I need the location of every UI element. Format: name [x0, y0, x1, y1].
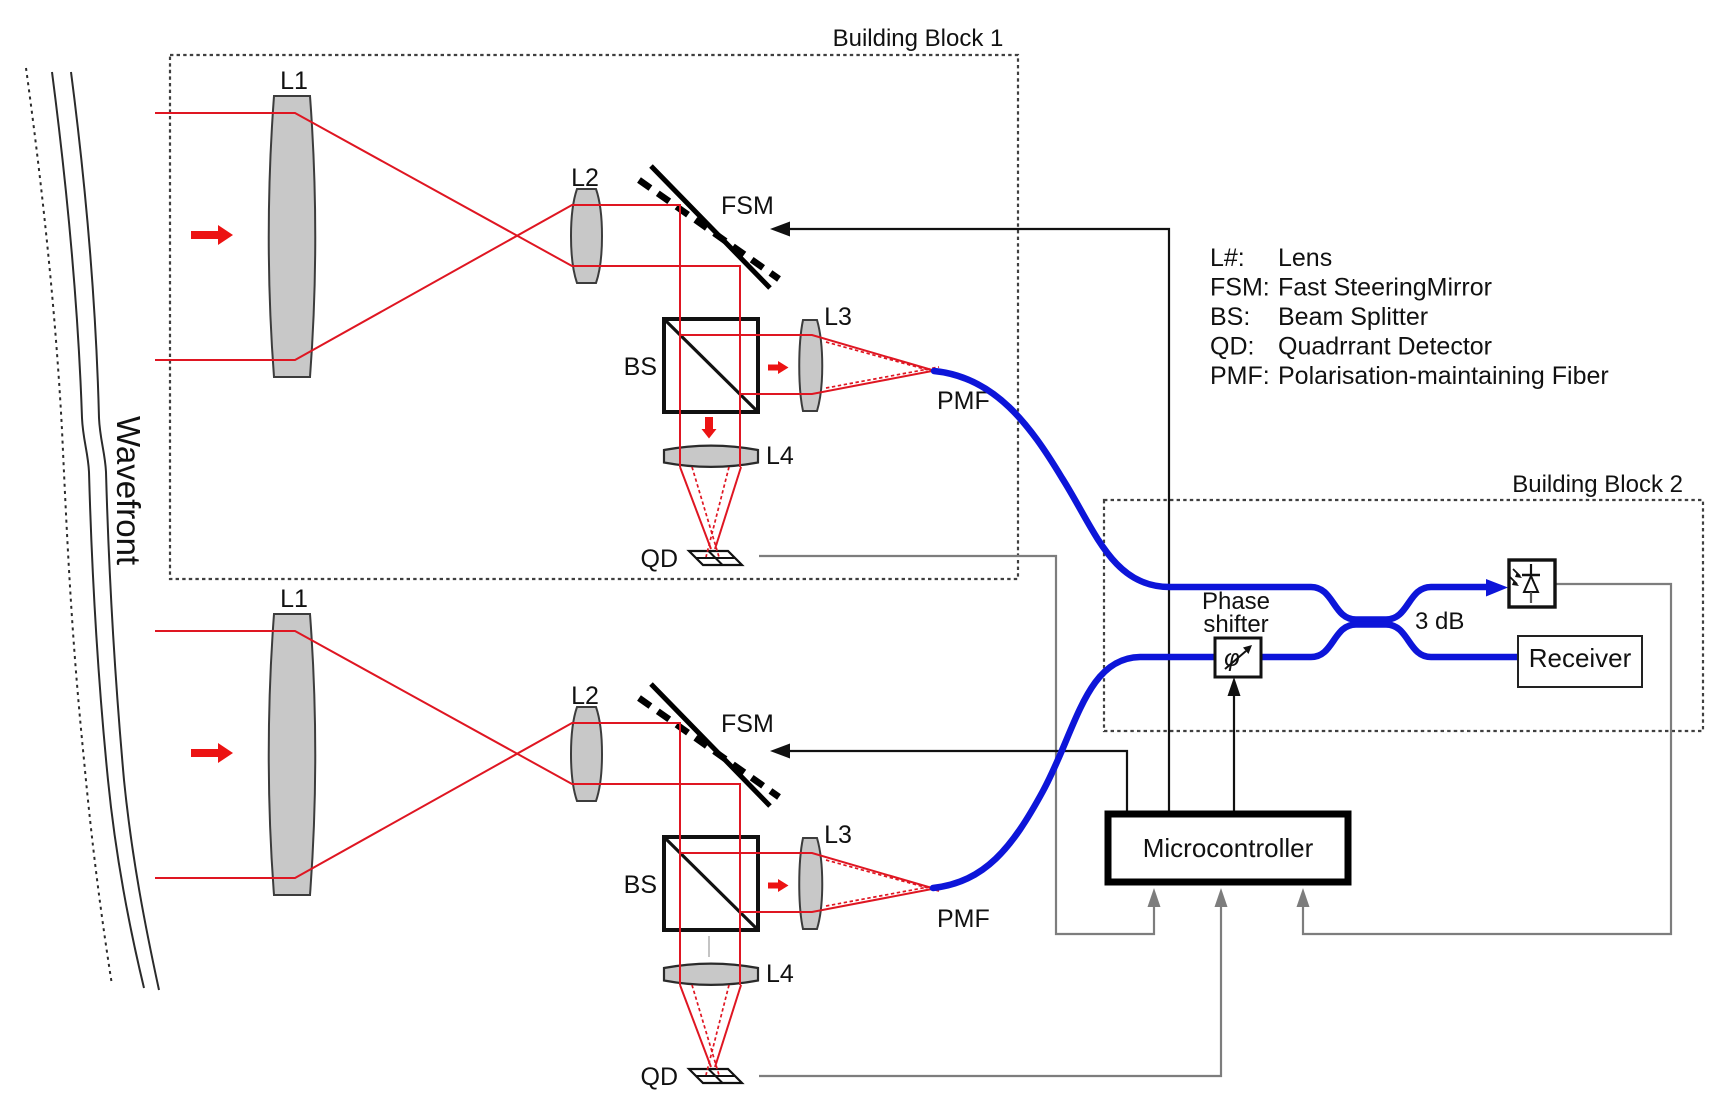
svg-text:Lens: Lens: [1278, 244, 1332, 272]
svg-text:Polarisation-maintaining Fiber: Polarisation-maintaining Fiber: [1278, 362, 1609, 390]
svg-text:Receiver: Receiver: [1529, 643, 1632, 673]
svg-text:BS:: BS:: [1210, 303, 1250, 331]
svg-text:FSM:: FSM:: [1210, 274, 1270, 302]
svg-text:Building Block 2: Building Block 2: [1512, 471, 1683, 498]
svg-text:3 dB: 3 dB: [1415, 608, 1464, 635]
svg-text:QD:: QD:: [1210, 333, 1254, 361]
svg-text:shifter: shifter: [1203, 611, 1268, 638]
svg-text:PMF:: PMF:: [1210, 362, 1270, 390]
svg-text:Microcontroller: Microcontroller: [1143, 833, 1314, 863]
svg-text:Building Block 1: Building Block 1: [833, 25, 1004, 52]
svg-text:L#:: L#:: [1210, 244, 1245, 272]
svg-text:Fast SteeringMirror: Fast SteeringMirror: [1278, 274, 1492, 302]
svg-text:Beam Splitter: Beam Splitter: [1278, 303, 1428, 331]
svg-text:Quadrrant Detector: Quadrrant Detector: [1278, 333, 1492, 361]
svg-text:Wavefront: Wavefront: [110, 416, 147, 565]
